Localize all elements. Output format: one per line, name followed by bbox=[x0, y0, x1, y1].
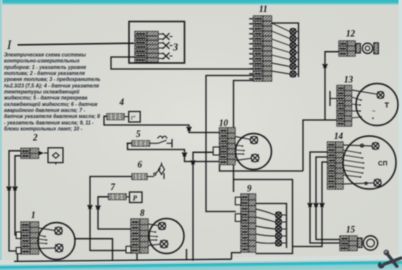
arrow h bbox=[7, 186, 12, 190]
lamp unit 15 bbox=[340, 236, 378, 251]
gauge 10 lamp upper bbox=[235, 136, 258, 143]
wire net 10-13 bbox=[303, 120, 337, 171]
label 2 bbox=[32, 133, 38, 143]
label 4 bbox=[119, 97, 125, 107]
wire gauge 1 stub to bus bbox=[17, 254, 19, 262]
label 1 bbox=[31, 210, 36, 220]
block 11 lamp bus bbox=[272, 23, 299, 77]
gauge 1 pin fan bbox=[39, 235, 48, 244]
lamp block 11 connector bbox=[249, 16, 271, 81]
gauge 10 lamp lower bbox=[235, 154, 259, 162]
overheat switch 5 bbox=[127, 136, 173, 147]
gauge 1 stub upper bbox=[16, 232, 21, 239]
fuel level sender 2 bbox=[21, 148, 63, 165]
lamp block 9 outline box bbox=[234, 180, 293, 254]
wire sender 7 to gauge 8 bbox=[98, 197, 131, 229]
arrow g bbox=[96, 205, 101, 209]
gauge 1 lamp lower bbox=[39, 244, 63, 252]
ground bus wire bbox=[14, 259, 232, 261]
label I bbox=[6, 37, 12, 52]
speedometer lamp lower bbox=[343, 179, 381, 186]
gauge 1 stub lower bbox=[16, 248, 21, 254]
gauge 8 lamp lower bbox=[148, 240, 168, 248]
gauge 13 terminal bar bbox=[330, 91, 337, 106]
label 15 bbox=[346, 225, 356, 235]
wire switch 5 to gauge 10 lamp bbox=[128, 143, 220, 161]
gauge 13 dial circle bbox=[352, 84, 399, 126]
label 7 bbox=[111, 182, 116, 192]
fuses F1-F3 bbox=[158, 33, 173, 59]
fuel gauge 1 connector bbox=[21, 222, 39, 254]
temperature sender 4 bbox=[107, 112, 140, 123]
gauge 8 pin fan bbox=[148, 231, 158, 241]
label 11 bbox=[259, 4, 268, 14]
speedometer lamp upper bbox=[343, 143, 379, 150]
wire 14 pin3 to block 9 bbox=[293, 162, 328, 247]
buzzer unit 12 body bbox=[356, 43, 379, 54]
wire gauge 10 stub ground bbox=[193, 152, 213, 260]
control lamps HL1-HL6 of block 11 bbox=[290, 29, 298, 77]
speedometer pin fan bbox=[343, 150, 364, 178]
oil warning sender 6 bbox=[132, 163, 165, 180]
buzzer unit 12 connector bbox=[339, 41, 355, 56]
control lamps HL of block 9 bbox=[276, 212, 287, 246]
label 14 bbox=[334, 131, 344, 141]
bus riser to block 9 bbox=[232, 253, 242, 260]
wire gauge 8 dial to bus bbox=[186, 249, 188, 260]
oil pressure sender 7 bbox=[109, 192, 143, 203]
arrow c bbox=[320, 203, 325, 207]
temp gauge 10 dial bbox=[236, 134, 272, 170]
block 9 stub lower bbox=[235, 214, 241, 222]
wire sender 2 to gauge 1 (a) bbox=[9, 151, 21, 251]
wire gauge 1 to ground bus bbox=[75, 239, 113, 261]
label 8 bbox=[140, 208, 145, 218]
temp gauge 10 connector bbox=[220, 128, 236, 165]
oil gauge 8 connector bbox=[131, 219, 148, 253]
wire gauge 8 to bus bbox=[136, 253, 138, 260]
wire block 11 to lamp block 9 bbox=[234, 81, 254, 180]
arrow j bbox=[191, 160, 196, 164]
gauge 8 lamp upper bbox=[148, 222, 166, 229]
node I feed wire from ignition bbox=[18, 43, 135, 45]
arrow e bbox=[182, 152, 187, 156]
wire block 11 to temp gauge column bbox=[206, 76, 254, 212]
speedometer 14 connector bbox=[328, 142, 344, 189]
wire gauge 10 to net 13 bbox=[220, 165, 304, 172]
label 12 bbox=[346, 29, 356, 39]
label 3 bbox=[172, 43, 178, 54]
speedometer 14 dial bbox=[343, 136, 396, 189]
arrow i bbox=[13, 186, 18, 190]
wire fuse box to lamp block 11 bbox=[111, 57, 254, 69]
label 13 bbox=[344, 75, 354, 85]
gauge 13 symbols bbox=[372, 101, 390, 123]
wire sender 2 to gauge 1 (b) bbox=[15, 156, 21, 235]
block 9 pin fan wires bbox=[256, 209, 276, 243]
block 9 lamp bus bbox=[256, 204, 287, 249]
wire 14 pin2 to lamp 15 bbox=[316, 157, 340, 240]
fuel gauge 1 dial bbox=[38, 223, 75, 260]
arrow d bbox=[187, 127, 192, 131]
gauge 10 pin fan bbox=[235, 145, 245, 155]
gauge 8 stub lower bbox=[126, 246, 131, 253]
caption text bbox=[3, 52, 100, 132]
label 5 bbox=[136, 129, 141, 139]
label 10 bbox=[219, 118, 229, 128]
fuse box 3 (предохранитель) bbox=[129, 22, 185, 64]
gauge 13 pin fan bbox=[352, 97, 362, 118]
block 9 stub upper bbox=[235, 197, 241, 205]
gauge 1 lamp upper bbox=[39, 227, 63, 234]
wire sender 4 to gauge 10 bbox=[104, 116, 220, 132]
gauge 13 connector bbox=[337, 86, 352, 127]
block 11 pin fan wires bbox=[272, 23, 290, 74]
gauge 10 stub bbox=[213, 147, 219, 155]
label 9 bbox=[247, 184, 252, 194]
arrow a bbox=[308, 203, 313, 207]
wire 14 pin1 to lamp 15 bbox=[310, 152, 340, 243]
arrow f bbox=[88, 205, 93, 209]
arrow b bbox=[314, 203, 319, 207]
lamp block 9 connector bbox=[241, 194, 256, 252]
arrow on wire 12-13 bbox=[323, 64, 328, 68]
wire sender 6 to gauge 8 lamp bbox=[90, 177, 132, 251]
wire to unit 12 bbox=[325, 52, 339, 120]
oil gauge 8 dial bbox=[149, 219, 184, 254]
fuse block connector bbox=[0, 0, 1, 1]
label 6 bbox=[138, 160, 143, 170]
watermark tools logo bbox=[377, 250, 402, 269]
